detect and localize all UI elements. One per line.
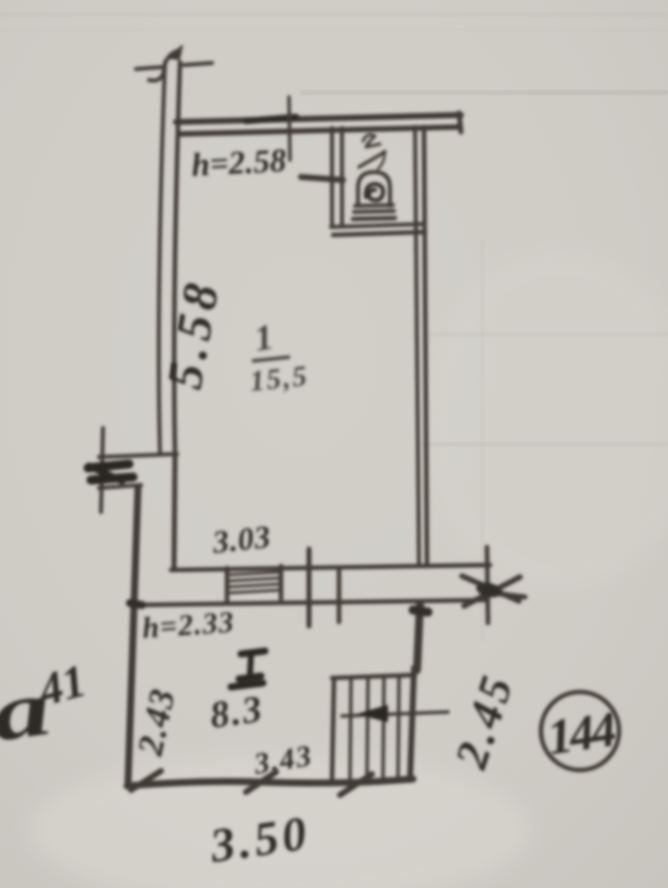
stairs arrow head bbox=[360, 706, 387, 721]
toilet spiral bbox=[366, 184, 383, 200]
left wall connector above mid wall bbox=[174, 455, 175, 569]
faint ruled line y30 bbox=[0, 29, 668, 31]
niche bottom wall (double line) bbox=[331, 224, 424, 227]
mid wall top line bbox=[171, 565, 490, 570]
window right jamb bbox=[279, 566, 284, 599]
top wall (double line) bbox=[176, 115, 461, 122]
svg-text:h=2.58: h=2.58 bbox=[191, 143, 288, 184]
top wall right end cap bbox=[459, 113, 461, 132]
faint ruled line y14 bbox=[0, 13, 668, 16]
stairs right wall bbox=[410, 668, 414, 780]
stairs left edge bbox=[332, 678, 334, 781]
svg-text:3.03: 3.03 bbox=[210, 518, 272, 560]
tick through mid wall A bbox=[307, 549, 312, 626]
svg-text:h=2.33: h=2.33 bbox=[141, 606, 235, 645]
bottom wall bbox=[127, 779, 413, 786]
tick through niche wall bbox=[301, 177, 343, 180]
bottom wall tick left bbox=[131, 771, 161, 790]
junction blob mid wall / left wall bbox=[130, 603, 142, 605]
paper light patch bottom center bbox=[30, 755, 530, 888]
jog arrow blob bbox=[88, 464, 133, 481]
room number circle 144 bbox=[541, 692, 619, 770]
bottom wall tick middle bbox=[246, 772, 276, 792]
jog upper horizontal bbox=[99, 454, 177, 457]
bottom wall tick right bbox=[340, 774, 372, 795]
window left jamb bbox=[225, 568, 230, 601]
X mark wall end bbox=[464, 577, 520, 606]
stairs arrow line bbox=[342, 712, 448, 716]
stairs top edge bbox=[332, 675, 415, 678]
faint grid vertical x483 bbox=[481, 240, 484, 640]
svg-text:15,5: 15,5 bbox=[248, 360, 310, 398]
toilet pedestal lines bbox=[355, 205, 393, 206]
wall right below mid wall bbox=[417, 604, 420, 670]
tick on top wall bbox=[289, 97, 290, 160]
paper light patch mid right bbox=[420, 250, 668, 590]
wall break dash right bbox=[184, 63, 212, 65]
handwritten texts bbox=[0, 143, 619, 873]
left wall upper (double line) bbox=[159, 62, 165, 453]
faint ruled line y444 bbox=[420, 443, 668, 446]
faint ruled line y93 bbox=[300, 91, 668, 94]
svg-text:144: 144 bbox=[544, 700, 619, 765]
mid wall bottom line bbox=[137, 600, 488, 605]
tick through mid wall B bbox=[337, 571, 342, 622]
wall break symbol top bbox=[136, 67, 163, 69]
stair treads bbox=[350, 679, 351, 780]
junction blob below mid wall bbox=[413, 610, 428, 612]
faint ruled line y335 bbox=[430, 333, 668, 336]
window hatch lines bbox=[227, 572, 281, 575]
top wall ink blob bbox=[246, 117, 296, 121]
toilet bowl arch bbox=[358, 172, 390, 206]
squiggle above toilet bbox=[363, 135, 380, 147]
vent symbol bbox=[231, 651, 265, 687]
jog tick vertical bbox=[101, 428, 103, 512]
niche left wall (double line) bbox=[330, 128, 334, 224]
svg-text:8.3: 8.3 bbox=[207, 688, 266, 737]
left wall lower room bbox=[128, 487, 138, 783]
right wall (double line) bbox=[415, 127, 419, 565]
fraction line bbox=[252, 357, 290, 361]
jog lower horizontal bbox=[99, 485, 141, 488]
